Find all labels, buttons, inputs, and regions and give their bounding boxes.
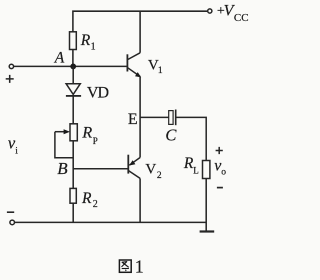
wire RL to ground [205, 179, 207, 232]
wire V2 collector to bottom rail [139, 178, 141, 222]
transistor V1 [127, 53, 141, 78]
label RP [81, 125, 97, 146]
wire top rail with R1 branch corner [73, 11, 208, 32]
capacitor C (electrolytic) [169, 110, 176, 126]
svg-text:C: C [165, 125, 177, 144]
svg-text:1: 1 [135, 257, 144, 277]
label R2 [81, 190, 98, 210]
ground [200, 230, 215, 232]
label RL [183, 155, 199, 175]
label V2 [145, 162, 162, 181]
wire V1 emitter down to V2 emitter [139, 77, 141, 158]
output minus sign [217, 187, 223, 189]
wire diode to RP [72, 96, 74, 124]
power terminal +VCC circle [208, 9, 212, 13]
transistor V2 [128, 155, 140, 179]
wire node A to diode [72, 66, 74, 83]
svg-text:B: B [57, 159, 68, 178]
input minus sign [7, 211, 14, 213]
resistor RL [203, 161, 210, 179]
input plus sign [6, 75, 14, 83]
wire node B to V2 base [73, 168, 128, 170]
potentiometer RP body [70, 124, 77, 141]
resistor R1 [70, 32, 77, 50]
svg-text:1: 1 [158, 66, 163, 76]
svg-text:R: R [80, 32, 91, 49]
wire R2 to bottom rail [72, 203, 74, 222]
input terminal - (circle) [10, 220, 15, 225]
label +VCC [217, 2, 249, 24]
wire wiper to RP bottom [55, 132, 73, 158]
wire R1 bottom to node A [72, 50, 74, 67]
svg-text:R: R [81, 190, 92, 207]
wire RP bottom through node B to R2 [72, 141, 74, 189]
output plus sign [216, 147, 223, 154]
svg-text:A: A [54, 50, 65, 67]
svg-text:CC: CC [234, 12, 249, 24]
svg-text:L: L [193, 165, 199, 175]
svg-text:E: E [128, 111, 138, 128]
wire V1 collector up [139, 11, 141, 53]
resistor R2 [70, 188, 76, 203]
diode VD [66, 84, 81, 96]
input terminal + (circle) [9, 64, 13, 68]
svg-text:VD: VD [87, 85, 109, 102]
svg-text:P: P [93, 136, 98, 146]
label vi [8, 134, 18, 157]
wire bottom rail [15, 221, 207, 223]
svg-text:V: V [145, 162, 156, 178]
svg-text:R: R [81, 125, 92, 142]
svg-text:o: o [221, 167, 226, 177]
label V1 [148, 58, 163, 76]
label vo [214, 158, 226, 178]
wire capacitor to RL [176, 117, 207, 160]
node A dot [70, 64, 76, 70]
wire input to V1 base [14, 65, 128, 67]
potentiometer RP wiper arrow [55, 129, 70, 134]
svg-text:2: 2 [157, 171, 162, 181]
svg-text:2: 2 [93, 199, 98, 210]
svg-text:i: i [15, 147, 18, 157]
caption 图 1 (drawn glyph) [119, 260, 131, 272]
label R1 [80, 32, 96, 53]
svg-text:1: 1 [91, 42, 96, 53]
wire E to capacitor [140, 116, 169, 118]
